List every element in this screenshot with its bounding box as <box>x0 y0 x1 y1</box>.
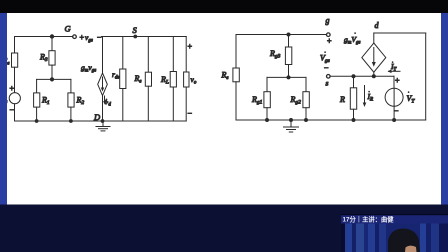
wire: left branch vertical <box>14 37 16 54</box>
wire: R2 branch lower <box>70 107 72 121</box>
node G terminal (open circle) <box>73 35 77 39</box>
svg-text:.: . <box>369 88 371 94</box>
wire: dependent source lower <box>102 96 104 121</box>
wire: below vs to bottom rail <box>14 104 16 121</box>
resistor RL <box>170 72 176 88</box>
node g terminal (open circle) <box>327 33 331 37</box>
person face hint <box>405 246 417 252</box>
svg-text:+: + <box>327 37 332 46</box>
wire: Rg3 lower to mid rail <box>288 65 290 78</box>
wire: R5 branch upper <box>147 37 149 73</box>
wire: VT column upper <box>393 76 395 88</box>
wire: rds branch upper <box>122 37 124 70</box>
svg-text:.: . <box>408 89 410 95</box>
svg-text:−: − <box>97 33 102 42</box>
svg-text:G: G <box>65 24 71 34</box>
resistor Rg1 <box>264 92 270 108</box>
person hair/head <box>388 229 420 252</box>
node D junction <box>101 120 104 123</box>
resistor Rs (source resistance) <box>12 53 18 67</box>
resistor rds <box>120 69 126 89</box>
svg-text:+: + <box>187 42 192 51</box>
resistor Rg3 <box>285 47 291 65</box>
wire: VT column lower <box>393 106 395 120</box>
wire: top rail left segment G side <box>15 36 73 38</box>
node mid rail junction <box>50 78 53 81</box>
svg-text:.: . <box>392 59 394 65</box>
wire: right edge lower <box>185 87 187 121</box>
resistor Rg2 <box>303 92 309 108</box>
svg-text:s: s <box>326 79 329 88</box>
resistor R1 <box>34 93 40 107</box>
wire: rds branch lower <box>122 89 124 122</box>
wire: left branch vertical lower <box>235 82 237 120</box>
arrow inside diamond (down) <box>373 48 375 65</box>
node R column top <box>352 75 355 78</box>
wire: Rg1 lower <box>266 108 268 120</box>
wire: bottom rail <box>15 120 187 122</box>
node VT bottom <box>393 119 396 122</box>
wire: top rail right segment <box>102 36 187 38</box>
node R2 bottom <box>70 120 73 123</box>
svg-text:−: − <box>9 106 14 115</box>
svg-text:+: + <box>9 84 14 93</box>
dependent source gm*vgs (diamond) <box>98 73 108 96</box>
node Rg1 bottom <box>266 119 269 122</box>
svg-text:.: . <box>355 30 357 36</box>
source VT (circle) <box>385 88 403 106</box>
wire: Rg3 upper <box>288 35 290 48</box>
left blue bar <box>0 13 7 205</box>
current arrow id <box>104 96 106 103</box>
top black bar <box>0 0 448 13</box>
wire: top rail from left corner to g terminal <box>236 34 327 36</box>
wire: dependent source upper <box>102 37 104 74</box>
wire: bottom rail <box>236 119 426 121</box>
node on top rail for R3 <box>50 35 53 38</box>
svg-text:17分｜主讲：曲健: 17分｜主讲：曲健 <box>343 215 395 224</box>
svg-text:−: − <box>324 64 329 73</box>
wire through VT <box>393 88 395 106</box>
wire: diamond bottom stub <box>373 72 375 76</box>
wire: right edge upper <box>185 37 187 73</box>
wire: R branch upper <box>353 76 355 88</box>
wire: R3 branch upper <box>51 37 53 51</box>
current arrow IR (down) <box>364 86 366 106</box>
wire: R1 branch upper <box>36 79 38 93</box>
dependent source gm*Vgs (diamond) <box>362 43 386 72</box>
wire: R3 branch lower to mid rail <box>51 65 53 79</box>
webcam overlay caption bar <box>341 214 448 224</box>
svg-text:.: . <box>325 49 327 55</box>
wire: s rail <box>330 75 394 77</box>
resistor R5 <box>145 72 151 86</box>
node s terminal (open circle) <box>327 75 331 79</box>
wire: Rg1 upper <box>266 77 268 91</box>
arrow inside diamond (down) <box>102 77 104 90</box>
curtain folds <box>341 224 345 252</box>
svg-text:−: − <box>187 109 192 118</box>
webcam video area: curtain background <box>341 224 448 252</box>
node mid rail dot <box>287 76 290 79</box>
wire: d rail <box>374 32 426 34</box>
node R bottom <box>352 119 355 122</box>
wire: diamond top stub <box>373 33 375 43</box>
node Rg2 bottom <box>305 119 308 122</box>
wire: R2 branch upper <box>70 79 72 93</box>
node R1 bottom <box>35 120 38 123</box>
source vs (circle) <box>9 93 20 104</box>
wire: mid rail <box>267 76 306 78</box>
resistor Ra <box>233 68 239 82</box>
svg-text:+: + <box>79 33 84 42</box>
node diamond bottom <box>372 75 375 78</box>
wire: RL branch lower <box>172 87 174 121</box>
svg-text:D: D <box>93 112 101 122</box>
wire: Rg2 lower <box>305 108 307 120</box>
ground <box>102 121 104 127</box>
svg-text:g: g <box>326 16 330 25</box>
wire: below Rs to source <box>14 67 16 93</box>
ground (right circuit) <box>290 119 293 122</box>
wire: mid rail <box>37 78 71 80</box>
svg-text:+: + <box>395 76 400 85</box>
wire: Rg2 upper <box>305 77 307 91</box>
node S (dot on rail) <box>134 35 137 38</box>
wire: R branch lower <box>353 109 355 120</box>
resistor R <box>350 88 356 109</box>
wire: R5 branch lower <box>147 86 149 121</box>
right blue bar <box>441 13 448 205</box>
wire: RL branch upper <box>172 37 174 72</box>
current arrow IT (left pointing) <box>389 70 401 72</box>
output vo box <box>184 72 189 87</box>
bottom dark band <box>0 205 448 252</box>
resistor R2 <box>68 93 74 107</box>
node Rg3 top <box>287 33 290 36</box>
svg-text:R: R <box>339 95 345 104</box>
wire: right edge <box>425 33 427 120</box>
resistor R3 <box>49 51 55 65</box>
wire: left branch vertical upper <box>235 35 237 69</box>
wire: R1 branch lower <box>36 107 38 121</box>
